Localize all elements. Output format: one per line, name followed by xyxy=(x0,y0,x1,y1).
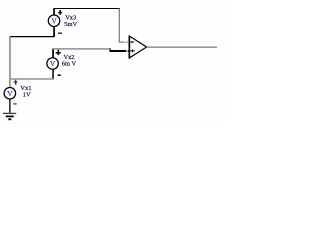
op-amp minus marker xyxy=(131,41,134,42)
wire Vx2+ horizontal grey xyxy=(52,48,110,50)
svg-text:V: V xyxy=(51,18,57,26)
ground xyxy=(3,112,16,114)
Vx3 plus sign xyxy=(58,12,62,14)
Vx2 bottom stub xyxy=(52,70,54,80)
Vx2 plus sign xyxy=(56,52,61,54)
wire step at x=110 xyxy=(109,48,111,51)
wire vertical drop to inverting input xyxy=(118,8,120,42)
op-amp plus marker xyxy=(130,50,135,51)
voltage source Vx2 xyxy=(47,58,59,70)
svg-text:V: V xyxy=(7,90,13,98)
Vx1 plus sign xyxy=(14,81,18,82)
svg-text:V: V xyxy=(50,60,56,68)
wire Vx3- horizontal to left rail xyxy=(10,36,55,38)
Vx2 top stub xyxy=(52,48,54,57)
Vx3 minus sign xyxy=(58,33,62,34)
Vx2 minus sign xyxy=(58,74,61,76)
voltage source Vx3 xyxy=(48,15,60,27)
svg-text:1V: 1V xyxy=(23,91,31,98)
wire non-inverting input black xyxy=(110,50,126,52)
op-amp U1 xyxy=(129,36,146,58)
Vx1 minus sign xyxy=(13,103,16,104)
wire left rail xyxy=(9,36,11,87)
Vx1 bottom stub xyxy=(9,99,11,114)
wire Vx2- horizontal grey to rail xyxy=(10,78,54,80)
wire top net: Vx3+ to op-amp inverting xyxy=(54,8,121,10)
wire output xyxy=(147,46,217,48)
wire inverting input horizontal xyxy=(119,41,125,43)
Vx3 bottom stub xyxy=(53,27,55,37)
svg-text:6m V: 6m V xyxy=(62,60,77,67)
voltage source Vx1 xyxy=(4,88,16,100)
svg-text:5mV: 5mV xyxy=(64,21,77,28)
Vx3 top stub xyxy=(53,8,55,14)
